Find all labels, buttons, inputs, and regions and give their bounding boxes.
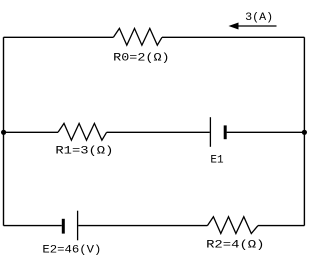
wire bbox=[4, 131, 59, 133]
resistor R0 bbox=[113, 28, 162, 45]
svg-text:E1: E1 bbox=[210, 155, 224, 167]
wire bbox=[78, 225, 207, 227]
wire bbox=[4, 36, 114, 38]
wire bbox=[162, 36, 304, 38]
svg-text:E2=46(V): E2=46(V) bbox=[42, 244, 101, 256]
node right junction bbox=[302, 130, 307, 135]
wire bbox=[303, 37, 305, 225]
wire bbox=[4, 225, 62, 227]
wire bbox=[227, 131, 305, 133]
node left junction bbox=[1, 130, 6, 135]
wire bbox=[258, 225, 304, 227]
wire bbox=[107, 131, 210, 133]
svg-text:R2=4(Ω): R2=4(Ω) bbox=[206, 240, 264, 252]
svg-text:R0=2(Ω): R0=2(Ω) bbox=[113, 53, 169, 65]
resistor R1 bbox=[58, 123, 107, 140]
resistor R2 bbox=[207, 217, 258, 234]
battery E2 bbox=[63, 211, 77, 241]
battery E1 bbox=[210, 117, 225, 147]
svg-text:R1=3(Ω): R1=3(Ω) bbox=[55, 146, 113, 158]
svg-text:3(A): 3(A) bbox=[245, 12, 273, 24]
wire bbox=[3, 37, 5, 225]
current arrow 3(A) bbox=[229, 23, 277, 30]
